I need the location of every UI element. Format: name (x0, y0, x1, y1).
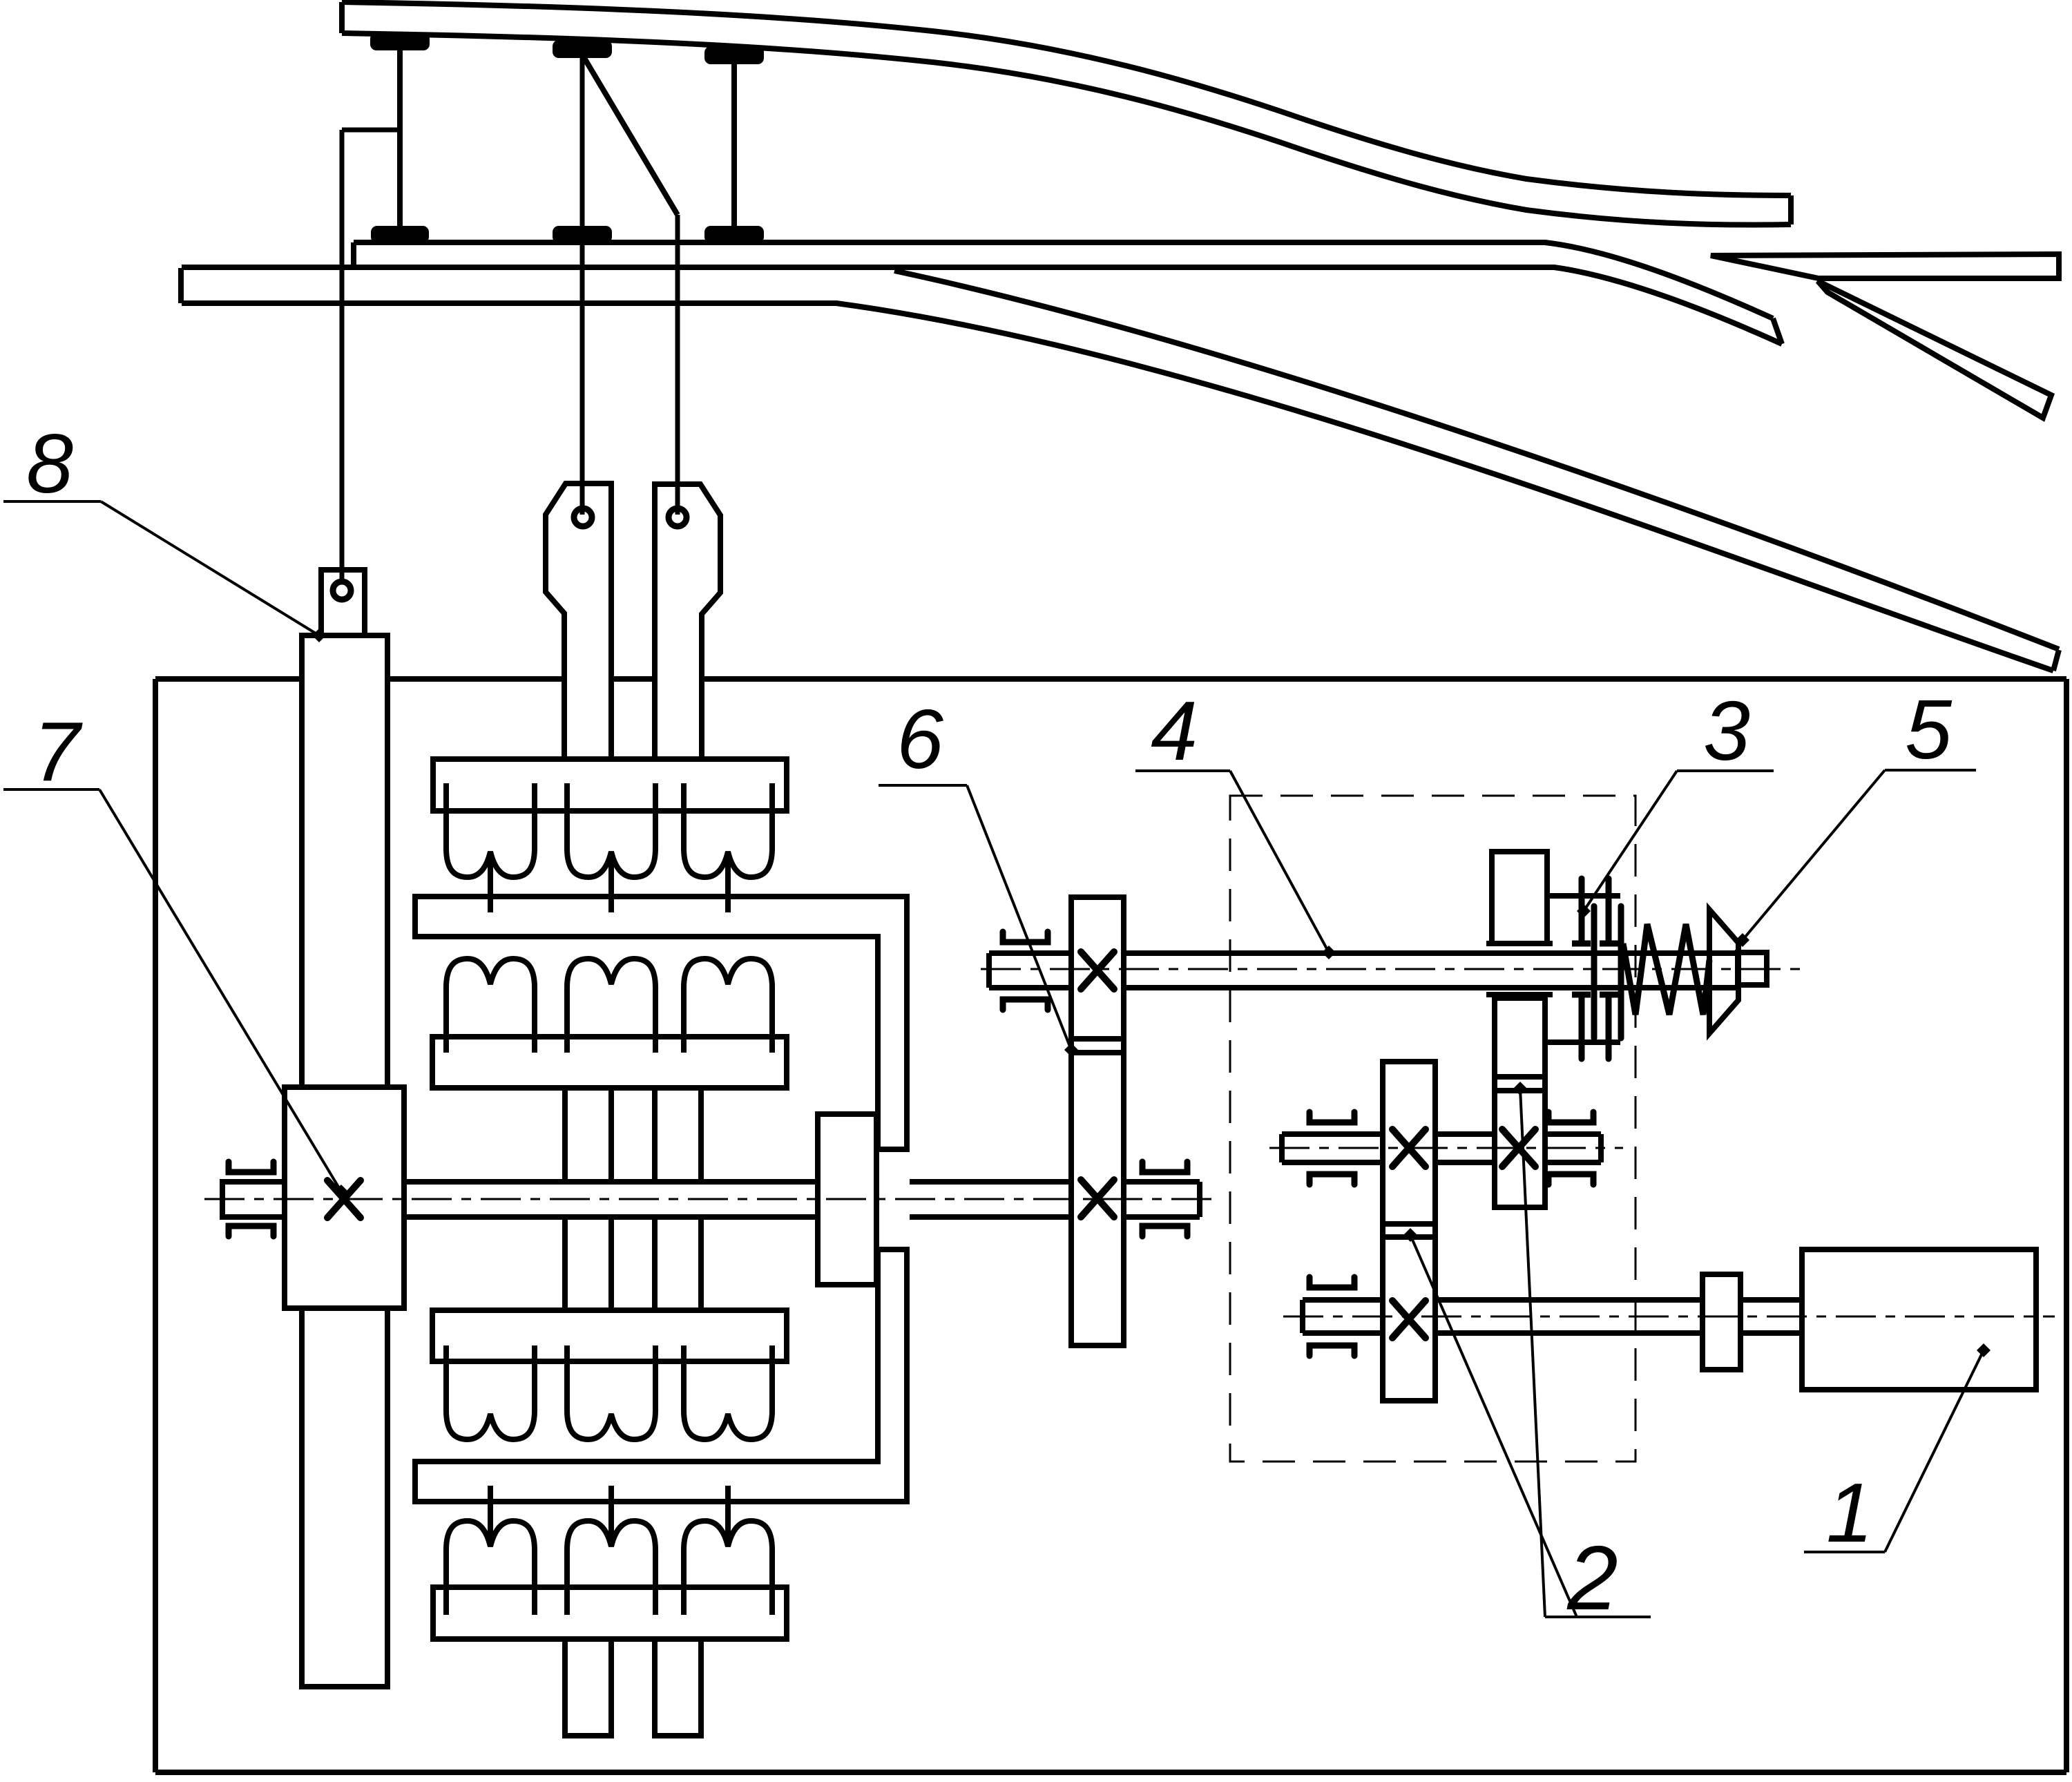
svg-text:1: 1 (1826, 1466, 1873, 1560)
svg-text:7: 7 (33, 705, 83, 798)
svg-text:2: 2 (1566, 1527, 1618, 1629)
svg-text:4: 4 (1151, 684, 1198, 778)
svg-text:8: 8 (26, 416, 73, 510)
svg-text:6: 6 (896, 692, 943, 786)
svg-text:3: 3 (1703, 684, 1750, 778)
svg-text:5: 5 (1905, 682, 1953, 776)
